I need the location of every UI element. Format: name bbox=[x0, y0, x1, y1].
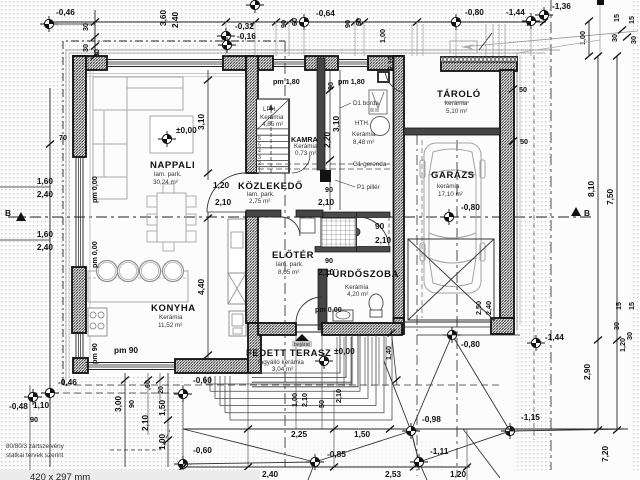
svg-text:-0,16: -0,16 bbox=[237, 31, 256, 41]
svg-text:2,10: 2,10 bbox=[318, 197, 335, 207]
svg-text:30: 30 bbox=[625, 332, 634, 340]
washing machine bbox=[300, 218, 315, 233]
right top 1,00 dim bbox=[588, 21, 590, 56]
benchmark -0,46 top bbox=[40, 16, 58, 32]
wall living/foyer lower bbox=[246, 212, 258, 323]
door hall-foyer arc bbox=[281, 217, 300, 236]
interior finish lines living room bbox=[87, 73, 246, 75]
door kamra arc bbox=[292, 155, 310, 173]
D1 rib symbol bbox=[369, 90, 387, 114]
helper dashed right of garage bbox=[533, 55, 535, 440]
svg-text:1,20: 1,20 bbox=[450, 469, 467, 479]
bottom-left vertical dims bbox=[124, 373, 126, 467]
svg-text:50: 50 bbox=[520, 137, 528, 146]
window kitchen south terrace door bbox=[86, 363, 175, 370]
dotted scan texture margins bbox=[0, 0, 72, 470]
stair room outline bbox=[257, 99, 290, 173]
wall exterior top seg4 bbox=[368, 56, 403, 70]
bathroom door hinge line bbox=[356, 212, 358, 252]
svg-text:HTH.: HTH. bbox=[355, 120, 370, 127]
svg-text:±0,00: ±0,00 bbox=[176, 125, 197, 135]
dashed bottom-left horizontal bbox=[63, 384, 500, 386]
svg-text:-0,60: -0,60 bbox=[193, 375, 212, 385]
svg-text:statkai tervek szerint: statkai tervek szerint bbox=[6, 452, 64, 459]
flue rectangle above storage bbox=[450, 41, 477, 53]
svg-text:2,50: 2,50 bbox=[474, 301, 483, 315]
kitchen tall units bbox=[228, 219, 246, 273]
garden retaining step lines bbox=[205, 335, 392, 420]
svg-text:1,10: 1,10 bbox=[33, 400, 50, 410]
svg-text:3,00: 3,00 bbox=[113, 395, 123, 412]
svg-text:pm 0,00: pm 0,00 bbox=[90, 176, 99, 203]
svg-text:Kerámia: Kerámia bbox=[352, 131, 376, 138]
benchmark -1,15 bbox=[501, 423, 519, 439]
svg-text:2,10: 2,10 bbox=[375, 235, 392, 245]
svg-text:1,00: 1,00 bbox=[378, 29, 387, 43]
benchmarks -0,32/-0,16 bbox=[217, 28, 235, 44]
stair walk line bbox=[270, 106, 272, 173]
svg-text:50: 50 bbox=[317, 400, 326, 408]
svg-text:1,40: 1,40 bbox=[384, 346, 393, 360]
axis line entry bbox=[284, 41, 286, 467]
svg-text:,60: ,60 bbox=[143, 380, 152, 390]
wall exterior left pier bbox=[72, 267, 86, 333]
svg-text:30: 30 bbox=[92, 49, 101, 57]
section mark B right bbox=[571, 207, 581, 216]
small fixture hth corner bbox=[378, 72, 389, 82]
svg-text:1,60: 1,60 bbox=[37, 176, 54, 186]
svg-text:2,10: 2,10 bbox=[215, 197, 232, 207]
svg-text:pm 0,00: pm 0,00 bbox=[315, 305, 342, 314]
bottom-left benchmarks bbox=[24, 389, 42, 405]
svg-text:11,52 m²: 11,52 m² bbox=[158, 322, 182, 329]
svg-text:90: 90 bbox=[375, 221, 385, 231]
wall hall south bbox=[246, 210, 281, 217]
top extension lines bbox=[95, 22, 531, 56]
svg-text:2,53: 2,53 bbox=[385, 469, 402, 479]
door hth arc bbox=[385, 69, 404, 93]
svg-text:2,10: 2,10 bbox=[334, 389, 343, 403]
svg-text:Kerámia: Kerámia bbox=[159, 314, 183, 321]
svg-text:30: 30 bbox=[81, 44, 90, 52]
roof eave lines bbox=[66, 49, 560, 51]
svg-text:LPH.: LPH. bbox=[263, 106, 277, 113]
benchmark -0,80 top bbox=[447, 14, 465, 30]
wall bathroom north thin bbox=[323, 212, 390, 218]
wall garage front-left corner bbox=[394, 318, 405, 334]
benchmark -1,44 top bbox=[522, 13, 540, 29]
svg-text:-1,36: -1,36 bbox=[552, 1, 571, 11]
top dimension chain bbox=[49, 21, 546, 23]
garage door track dashed bbox=[421, 140, 423, 318]
svg-text:420 x 297 mm: 420 x 297 mm bbox=[30, 472, 90, 480]
extension lines above storage bbox=[412, 24, 505, 56]
stair break line bbox=[257, 99, 290, 130]
svg-text:lam. park.: lam. park. bbox=[247, 191, 275, 198]
window living west bbox=[76, 157, 83, 267]
garage door opening bbox=[404, 321, 491, 323]
svg-text:2,40: 2,40 bbox=[262, 469, 279, 479]
svg-text:-0,80: -0,80 bbox=[465, 7, 484, 17]
step extension lines down bbox=[248, 335, 334, 467]
svg-text:pm 90: pm 90 bbox=[114, 345, 138, 355]
svg-text:2,90: 2,90 bbox=[582, 363, 592, 380]
terrain triangulation bbox=[183, 335, 628, 480]
svg-text:NAPPALI: NAPPALI bbox=[150, 160, 195, 171]
svg-text:30: 30 bbox=[629, 36, 638, 44]
toilet bbox=[369, 294, 383, 312]
svg-text:2,40: 2,40 bbox=[37, 189, 54, 199]
svg-text:1,50: 1,50 bbox=[354, 429, 371, 439]
benchmark -1,36 bbox=[535, 7, 553, 23]
svg-text:G1 gerenda: G1 gerenda bbox=[353, 161, 387, 168]
property setback dashed line top-left bbox=[63, 41, 285, 385]
svg-text:fagyálló kerámia: fagyálló kerámia bbox=[258, 359, 304, 366]
svg-text:15: 15 bbox=[612, 14, 621, 22]
window living north bbox=[107, 60, 223, 67]
svg-text:2,10: 2,10 bbox=[318, 267, 335, 277]
svg-text:3,10: 3,10 bbox=[331, 115, 341, 132]
svg-text:-0,46: -0,46 bbox=[58, 377, 77, 387]
right dims 8,10 7,50 bbox=[597, 56, 599, 430]
svg-text:90: 90 bbox=[325, 256, 333, 265]
coffee table / rug bbox=[150, 116, 193, 153]
window hth north bbox=[338, 60, 368, 67]
svg-text:90: 90 bbox=[30, 415, 38, 424]
hth boiler circle bbox=[371, 117, 390, 136]
wall exterior kitchen bottom bbox=[175, 359, 248, 373]
svg-text:30: 30 bbox=[612, 322, 621, 330]
svg-text:FÜRDŐSZOBA: FÜRDŐSZOBA bbox=[326, 268, 399, 280]
svg-text:-1,15: -1,15 bbox=[521, 412, 540, 422]
svg-text:Kerámia: Kerámia bbox=[345, 284, 369, 291]
svg-text:KONYHA: KONYHA bbox=[151, 303, 196, 314]
svg-text:2,10: 2,10 bbox=[300, 393, 309, 407]
svg-text:50: 50 bbox=[519, 85, 527, 94]
svg-text:90: 90 bbox=[279, 20, 288, 28]
G1 beam dashed bbox=[258, 163, 390, 165]
svg-text:2,40: 2,40 bbox=[37, 242, 54, 252]
svg-text:-0,46: -0,46 bbox=[56, 7, 75, 17]
svg-text:3,60: 3,60 bbox=[158, 9, 168, 26]
svg-text:GARÁZS: GARÁZS bbox=[431, 170, 475, 181]
wall exterior left bottom corner bbox=[73, 358, 88, 373]
section line B-B bbox=[8, 216, 595, 218]
svg-text:1,00: 1,00 bbox=[290, 393, 299, 407]
shower tiled box bbox=[321, 218, 356, 247]
storage top wall insulation band bbox=[441, 57, 517, 62]
P1 pillar bbox=[320, 170, 331, 182]
benchmark -0,64 bbox=[295, 14, 313, 30]
svg-text:-1,44: -1,44 bbox=[506, 7, 525, 17]
svg-text:-0,85: -0,85 bbox=[327, 449, 346, 459]
svg-text:2,10: 2,10 bbox=[140, 414, 150, 431]
wall partition pantry/hth bbox=[317, 58, 325, 170]
garage axis dash-dot left bbox=[416, 135, 418, 476]
svg-text:30,24 m²: 30,24 m² bbox=[153, 179, 178, 186]
svg-text:90: 90 bbox=[343, 20, 352, 28]
paper size label bbox=[0, 470, 260, 480]
axis line garage centre bbox=[456, 140, 458, 476]
svg-text:17,10 m²: 17,10 m² bbox=[438, 191, 463, 198]
svg-text:4,20 m²: 4,20 m² bbox=[347, 291, 368, 298]
svg-text:-0,98: -0,98 bbox=[422, 414, 441, 424]
garage elevation bbox=[440, 209, 458, 225]
wall foyer south bbox=[258, 323, 296, 335]
stair treads bbox=[257, 129, 290, 167]
svg-text:pm 0,00: pm 0,00 bbox=[90, 241, 99, 268]
svg-text:pm 1,80: pm 1,80 bbox=[273, 77, 300, 86]
svg-text:3,10: 3,10 bbox=[196, 113, 206, 130]
svg-text:1: 1 bbox=[258, 168, 261, 174]
garage apron cross bbox=[408, 239, 494, 320]
pipe dot bbox=[352, 228, 360, 236]
bottom dim line y467 bbox=[183, 466, 470, 468]
svg-text:-0,80: -0,80 bbox=[461, 339, 480, 349]
deck board lines right of terrace bbox=[337, 337, 386, 386]
dining table with chairs bbox=[157, 193, 186, 242]
stove unit bbox=[88, 308, 107, 336]
benchmark top mid bbox=[246, 0, 264, 13]
svg-text:4,85 m²: 4,85 m² bbox=[262, 121, 283, 128]
terrain benchmarks bbox=[443, 327, 461, 343]
svg-text:4: 4 bbox=[258, 149, 261, 155]
svg-text:15: 15 bbox=[614, 302, 623, 310]
svg-text:±0,00: ±0,00 bbox=[334, 346, 355, 356]
slanted step-height dim 1,40 bbox=[391, 328, 397, 385]
svg-text:Kerámia: Kerámia bbox=[294, 143, 318, 150]
window hall north bbox=[273, 60, 305, 67]
svg-text:3,04 m²: 3,04 m² bbox=[272, 366, 293, 373]
wall terrace left bbox=[248, 323, 261, 373]
entry door threshold bbox=[296, 324, 322, 326]
door living-hall arc bbox=[207, 173, 246, 212]
svg-text:-0,80: -0,80 bbox=[461, 202, 480, 212]
svg-text:-0,64: -0,64 bbox=[316, 8, 335, 18]
terrace elevation bbox=[315, 353, 333, 369]
dim stair column bbox=[329, 70, 331, 210]
svg-text:2,40: 2,40 bbox=[484, 301, 493, 315]
svg-text:8,10: 8,10 bbox=[586, 180, 596, 197]
svg-text:0,73 m²: 0,73 m² bbox=[295, 150, 316, 157]
svg-text:D1 borda: D1 borda bbox=[353, 100, 379, 107]
svg-text:15: 15 bbox=[627, 16, 636, 24]
wall exterior storage top bbox=[441, 57, 517, 71]
benchmark -1,44 right bbox=[527, 335, 545, 351]
svg-text:ELŐTÉR: ELŐTÉR bbox=[272, 249, 314, 261]
svg-text:pm 90: pm 90 bbox=[90, 343, 99, 364]
svg-text:90: 90 bbox=[127, 400, 136, 408]
svg-text:kerámia: kerámia bbox=[437, 183, 460, 190]
car in garage bbox=[420, 143, 485, 293]
svg-text:2,40: 2,40 bbox=[170, 11, 180, 28]
svg-text:B: B bbox=[584, 208, 590, 218]
kitchen island counter bbox=[88, 271, 188, 302]
svg-text:-0,48: -0,48 bbox=[9, 401, 28, 411]
svg-text:FEDETT TERASZ: FEDETT TERASZ bbox=[246, 348, 331, 359]
svg-text:pm 1,80: pm 1,80 bbox=[338, 77, 365, 86]
property line right bbox=[550, 0, 552, 470]
svg-text:lam. park.: lam. park. bbox=[276, 261, 304, 268]
washbasin bbox=[333, 310, 353, 321]
pantry partition line bbox=[288, 99, 290, 173]
svg-text:5: 5 bbox=[258, 142, 261, 148]
svg-text:-0,60: -0,60 bbox=[193, 445, 212, 455]
svg-text:P1 pillér: P1 pillér bbox=[357, 184, 380, 191]
entry door arc bbox=[296, 297, 322, 323]
bar stools bbox=[97, 261, 118, 282]
svg-text:-1,44: -1,44 bbox=[545, 332, 564, 342]
wall exterior garage right bbox=[500, 70, 514, 318]
wall garage front-right corner bbox=[491, 318, 514, 334]
svg-text:1,50: 1,50 bbox=[157, 399, 167, 416]
left 30 dims bbox=[94, 10, 96, 56]
svg-text:Kerámia: Kerámia bbox=[260, 114, 284, 121]
svg-text:-0,32: -0,32 bbox=[235, 21, 254, 31]
wall partition storage/garage bbox=[404, 128, 500, 135]
svg-text:5,10 m²: 5,10 m² bbox=[446, 108, 467, 115]
svg-text:4,40: 4,40 bbox=[196, 278, 206, 295]
svg-text:lam. park.: lam. park. bbox=[154, 171, 182, 178]
svg-text:2,25: 2,25 bbox=[291, 429, 308, 439]
svg-text:7,20: 7,20 bbox=[600, 445, 610, 462]
svg-text:60: 60 bbox=[354, 18, 363, 26]
svg-text:7,50: 7,50 bbox=[605, 188, 615, 205]
wall exterior top-left corner bbox=[73, 56, 107, 70]
svg-text:2,10: 2,10 bbox=[386, 56, 395, 70]
svg-text:1,20: 1,20 bbox=[213, 180, 230, 190]
wall bathroom south bbox=[322, 323, 402, 335]
wall exterior top seg2 bbox=[223, 56, 273, 70]
terrace steps bbox=[252, 335, 358, 387]
svg-text:kerámia: kerámia bbox=[445, 100, 468, 107]
left dim line bbox=[49, 88, 51, 467]
flow arrow bbox=[462, 31, 638, 47]
svg-text:1,60: 1,60 bbox=[37, 229, 54, 239]
wall exterior left upper bbox=[73, 56, 86, 157]
svg-text:80/80/3 zártszelvény: 80/80/3 zártszelvény bbox=[6, 443, 65, 450]
bathroom door arc bbox=[362, 217, 389, 246]
bottom dim line y429 bbox=[183, 428, 628, 430]
window kitchen west bbox=[76, 333, 83, 358]
svg-text:8,05 m²: 8,05 m² bbox=[278, 269, 299, 276]
svg-text:15: 15 bbox=[627, 302, 636, 310]
wall bathroom mid thin bbox=[315, 247, 390, 253]
wall exterior top seg3 bbox=[305, 56, 338, 70]
living elevation bbox=[158, 131, 176, 147]
wall living/hall upper bbox=[246, 56, 258, 173]
svg-text:B: B bbox=[5, 208, 11, 218]
svg-text:90: 90 bbox=[325, 185, 333, 194]
svg-text:3: 3 bbox=[258, 155, 261, 161]
entrance marker triangle bbox=[295, 334, 309, 341]
svg-text:2,20: 2,20 bbox=[322, 131, 332, 148]
svg-text:8,48 m²: 8,48 m² bbox=[353, 139, 374, 146]
svg-text:20: 20 bbox=[156, 386, 165, 394]
svg-text:-1,11: -1,11 bbox=[430, 446, 449, 456]
sofa L-shape living room bbox=[93, 77, 127, 177]
svg-text:90: 90 bbox=[326, 82, 335, 90]
svg-text:TÁROLÓ: TÁROLÓ bbox=[437, 88, 481, 100]
svg-text:2,75 m²: 2,75 m² bbox=[249, 198, 270, 205]
wall spine house-garage bbox=[394, 56, 405, 320]
svg-text:30: 30 bbox=[610, 34, 619, 42]
wall foyer west thin bbox=[318, 269, 327, 330]
svg-text:6: 6 bbox=[258, 136, 261, 142]
svg-text:70: 70 bbox=[59, 133, 67, 142]
